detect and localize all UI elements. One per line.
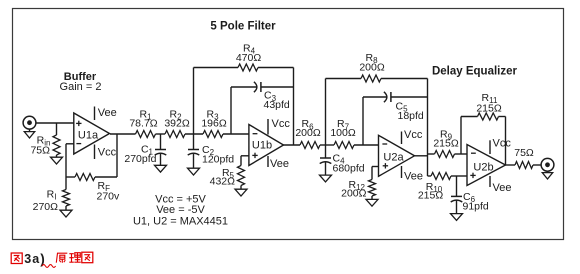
title Delay Equalizer: [432, 66, 518, 78]
label C3: [264, 90, 277, 103]
label C4: [333, 153, 346, 166]
resistor R2 392 ohm: [165, 131, 185, 138]
ground under C2: [188, 168, 200, 175]
ground under R12: [366, 199, 378, 206]
output connector J2: [541, 158, 554, 171]
wire node up to C5: [362, 97, 364, 145]
ground at input connector: [24, 129, 34, 138]
svg-text:Gain = 2: Gain = 2: [60, 81, 102, 93]
value 392 ohm: [164, 118, 190, 130]
capacitor C5 18pfd: [363, 92, 428, 102]
svg-text:78.7Ω: 78.7Ω: [129, 118, 157, 130]
svg-text:196Ω: 196Ω: [201, 118, 227, 130]
U1a Vcc label: [98, 147, 117, 159]
svg-text:270Ω: 270Ω: [33, 201, 59, 213]
svg-text:91pfd: 91pfd: [463, 201, 489, 213]
ground under Rin: [51, 157, 63, 164]
ground under C4: [320, 175, 332, 182]
U2b + input marker: [470, 173, 475, 178]
wire feedback down to U2a output: [427, 79, 429, 177]
U1b Vee pin tick: [267, 156, 269, 167]
resistor 75 ohm output: [515, 162, 533, 169]
value 215 ohm R10: [418, 190, 444, 202]
svg-text:270pfd: 270pfd: [124, 153, 156, 165]
value 470 ohm: [236, 52, 262, 64]
label R2: [169, 109, 182, 122]
U1a designator: [78, 129, 99, 141]
svg-text:Vcc: Vcc: [404, 129, 423, 141]
U1b - input marker: [253, 133, 258, 135]
svg-text:U2b: U2b: [473, 161, 493, 173]
svg-text:5 Pole Filter: 5 Pole Filter: [210, 21, 276, 33]
U1b designator: [252, 139, 272, 151]
label RF: [98, 180, 111, 193]
red caption: figure 3a schematic: [11, 251, 93, 267]
U1a Vee pin tick: [94, 107, 96, 121]
svg-text:120pfd: 120pfd: [202, 153, 234, 165]
wire node up to C3: [230, 87, 232, 134]
title 5 Pole Filter: [210, 21, 276, 33]
ground under RI: [60, 210, 72, 217]
capacitor C4 680pfd: [320, 145, 332, 175]
label Rin: [37, 134, 51, 147]
U2a - input marker: [382, 143, 387, 145]
U2b designator: [473, 161, 493, 173]
wire R3 to U1b - input: [223, 133, 249, 135]
U2a + input marker: [383, 163, 388, 168]
wire node up to R8: [325, 79, 327, 146]
note Gain = 2: [60, 81, 102, 93]
U1a Vcc pin tick: [94, 145, 96, 160]
U1b Vcc label: [272, 118, 291, 130]
svg-text:Vee: Vee: [98, 107, 117, 119]
op-amp U1b: [249, 125, 284, 166]
svg-text:100Ω: 100Ω: [330, 127, 356, 139]
op-amp U2b: [467, 145, 506, 186]
label RI: [47, 189, 57, 202]
svg-text:Vcc: Vcc: [98, 147, 117, 159]
svg-text:Vee: Vee: [493, 182, 512, 194]
svg-text:200Ω: 200Ω: [341, 188, 367, 200]
U2a Vee pin tick: [401, 166, 403, 178]
wire input to U1a + input: [36, 122, 74, 124]
resistor R8 200 ohm: [326, 75, 428, 82]
label C2: [202, 144, 215, 157]
U2b Vcc label: [493, 138, 512, 150]
note Vcc supply: [155, 194, 206, 206]
U1b Vcc pin tick: [267, 119, 269, 135]
value 120pfd: [202, 153, 234, 165]
svg-text:Delay Equalizer: Delay Equalizer: [432, 66, 518, 78]
svg-text:200Ω: 200Ω: [295, 127, 321, 139]
wire U1a output to R1: [110, 133, 136, 135]
ground under R5: [235, 189, 247, 196]
label R5: [222, 167, 235, 180]
value 200 ohm R12: [341, 188, 367, 200]
U2b Vcc pin tick: [489, 140, 491, 154]
value 215 ohm R9: [433, 138, 459, 150]
svg-text:75Ω: 75Ω: [514, 147, 534, 159]
input connector J1: [23, 116, 36, 129]
svg-text:432Ω: 432Ω: [210, 176, 236, 188]
wire U2b output to 75 ohm: [506, 164, 516, 166]
op-amp U1a: [74, 113, 110, 154]
U1b Vee label: [270, 158, 289, 170]
label 75 ohm output: [514, 147, 534, 159]
label R11: [482, 92, 498, 105]
value 680pfd: [333, 163, 365, 175]
label R8: [365, 52, 378, 65]
svg-text:215Ω: 215Ω: [418, 190, 444, 202]
value 432 ohm: [210, 176, 236, 188]
value 270v for RF: [97, 191, 121, 203]
value 200 ohm R8: [359, 61, 385, 73]
value 91pfd: [463, 201, 489, 213]
wire U2a output: [415, 155, 428, 157]
svg-text:680pfd: 680pfd: [333, 163, 365, 175]
svg-text:43pfd: 43pfd: [264, 99, 290, 111]
resistor RI 270 ohm: [63, 177, 70, 210]
wire U1b output to R6: [284, 144, 301, 146]
svg-text:75Ω: 75Ω: [30, 144, 50, 156]
label R3: [206, 109, 219, 122]
U1a - input marker: [76, 143, 81, 145]
svg-text:Vee: Vee: [270, 158, 289, 170]
value 215 ohm R11: [476, 103, 502, 115]
resistor R4 470 ohm: [194, 64, 294, 71]
wire to output connector: [533, 164, 541, 166]
resistor R1 78.7 ohm: [136, 131, 156, 138]
svg-text:U1a: U1a: [78, 129, 99, 141]
svg-text:): ): [40, 251, 45, 266]
svg-text:392Ω: 392Ω: [164, 118, 190, 130]
op-amp U2a: [379, 135, 415, 176]
svg-text:470Ω: 470Ω: [236, 52, 262, 64]
ground under C1: [155, 165, 167, 172]
wire and resistor R10 215 ohm: [428, 173, 468, 180]
resistor R7 100 ohm: [334, 142, 354, 149]
U1b + input marker: [252, 153, 257, 158]
wire R2 to R3 with C2 node: [185, 133, 203, 135]
value 78.7 ohm: [129, 118, 157, 130]
wire and resistor R9 215 ohm: [428, 151, 468, 158]
note Vee supply: [156, 204, 205, 216]
ground under C6: [451, 214, 463, 221]
label R6: [301, 118, 314, 131]
resistor Rin 75 ohm: [53, 123, 60, 157]
svg-text:U1b: U1b: [252, 139, 272, 151]
svg-text:Vee = -5V: Vee = -5V: [156, 204, 205, 216]
svg-text:215Ω: 215Ω: [433, 138, 459, 150]
U1a + input marker: [76, 121, 81, 126]
value 75 ohm for Rin: [30, 144, 50, 156]
resistor R6 200 ohm: [300, 142, 320, 149]
svg-text:a: a: [32, 252, 40, 266]
svg-text:U1, U2 = MAX4451: U1, U2 = MAX4451: [133, 216, 228, 228]
wire R1 to R2 with C1 node: [156, 133, 166, 135]
resistor R5 432 ohm: [238, 156, 249, 189]
label C6: [463, 191, 476, 204]
ground at output connector: [542, 171, 552, 179]
U1a Vee label: [98, 107, 117, 119]
value 196 ohm: [201, 118, 227, 130]
value 18pfd: [398, 110, 424, 122]
title Buffer: [64, 71, 97, 83]
resistor R11 215 ohm feedback: [461, 113, 506, 165]
svg-text:Vcc: Vcc: [493, 138, 512, 150]
label R9: [440, 128, 453, 141]
svg-text:U2a: U2a: [383, 151, 404, 163]
value 43pfd: [264, 99, 290, 111]
svg-text:200Ω: 200Ω: [359, 61, 385, 73]
wire R6 to R7 with C4 node: [320, 144, 334, 146]
value 100 ohm: [330, 127, 356, 139]
svg-text:270v: 270v: [97, 191, 121, 203]
svg-text:Vcc: Vcc: [272, 118, 291, 130]
svg-text:215Ω: 215Ω: [476, 103, 502, 115]
U2b - input marker: [471, 152, 476, 154]
wire RF to U1a output node: [116, 134, 118, 177]
capacitor C6 91pfd: [451, 176, 463, 214]
value 270 ohm for RI: [33, 201, 59, 213]
wire node R2R3 up to R4: [193, 68, 195, 135]
U2b Vee label: [493, 182, 512, 194]
label C5: [396, 101, 409, 114]
capacitor C3 43pfd: [231, 82, 294, 92]
label R12: [349, 179, 366, 192]
capacitor C2 120pfd: [188, 134, 200, 168]
wire R4 down to U1b output: [293, 68, 295, 146]
value 270pfd: [124, 153, 156, 165]
U2b Vee pin tick: [489, 176, 491, 187]
label R7: [337, 118, 350, 131]
U2a designator: [383, 151, 404, 163]
wire U1a - input to feedback node: [66, 144, 74, 177]
U2a Vcc pin tick: [401, 132, 403, 145]
label R4: [243, 43, 256, 56]
svg-text:3: 3: [24, 252, 31, 266]
resistor R12 200 ohm: [369, 167, 379, 200]
value 200 ohm R6: [295, 127, 321, 139]
U2a Vcc label: [404, 129, 423, 141]
wire R7 to U2a - input: [354, 144, 379, 146]
label C1: [141, 144, 154, 157]
svg-text:18pfd: 18pfd: [398, 110, 424, 122]
resistor RF 270 feedback: [66, 174, 117, 181]
U2a Vee label: [404, 171, 423, 183]
capacitor C1 270pfd: [155, 134, 167, 165]
note MAX4451: [133, 216, 228, 228]
resistor R3 196 ohm: [203, 131, 223, 138]
label R10: [426, 181, 443, 194]
label R1: [139, 109, 152, 122]
svg-text:Vee: Vee: [404, 171, 423, 183]
